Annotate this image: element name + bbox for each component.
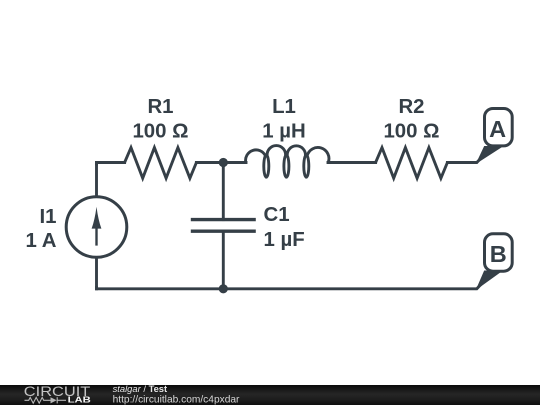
svg-text:1 A: 1 A — [26, 230, 57, 252]
svg-text:I1: I1 — [39, 206, 56, 228]
wire top-left corner to R1 — [97, 163, 125, 164]
svg-text:A: A — [489, 116, 506, 142]
wire I1 bottom lead — [95, 257, 98, 289]
capacitor C1 — [191, 220, 256, 232]
junction node top — [219, 158, 228, 167]
wire node to C1 top — [222, 163, 225, 220]
svg-text:LAB: LAB — [68, 396, 91, 405]
svg-text:R2: R2 — [398, 96, 424, 118]
terminal B — [477, 234, 512, 289]
svg-text:stalgar / Test: stalgar / Test — [113, 383, 168, 394]
svg-text:http://circuitlab.com/c4pxdar: http://circuitlab.com/c4pxdar — [113, 395, 240, 405]
svg-text:R1: R1 — [147, 96, 173, 118]
svg-text:L1: L1 — [272, 96, 296, 118]
svg-text:B: B — [490, 241, 507, 267]
resistor R1 — [125, 148, 197, 179]
wire R1 to node top junction — [196, 161, 246, 164]
CircuitLab logo schematic line with resistor and diode — [25, 397, 67, 403]
svg-text:100 Ω: 100 Ω — [383, 121, 439, 143]
wire bottom net — [97, 284, 482, 289]
svg-text:1 µF: 1 µF — [264, 229, 305, 251]
resistor R2 — [376, 148, 448, 179]
terminal A — [477, 109, 512, 163]
current source I1 — [66, 197, 127, 258]
svg-text:100 Ω: 100 Ω — [132, 121, 188, 143]
svg-text:C1: C1 — [264, 204, 290, 226]
inductor L1 — [246, 146, 329, 178]
wire C1 bottom to bottom net — [222, 231, 225, 289]
wire R2 to terminal A lead — [447, 158, 481, 163]
wire I1 top lead — [95, 163, 98, 197]
svg-text:1 µH: 1 µH — [262, 121, 305, 143]
footer bar — [0, 385, 540, 405]
wire L1 to R2 — [328, 161, 376, 164]
junction node bottom — [219, 284, 228, 293]
